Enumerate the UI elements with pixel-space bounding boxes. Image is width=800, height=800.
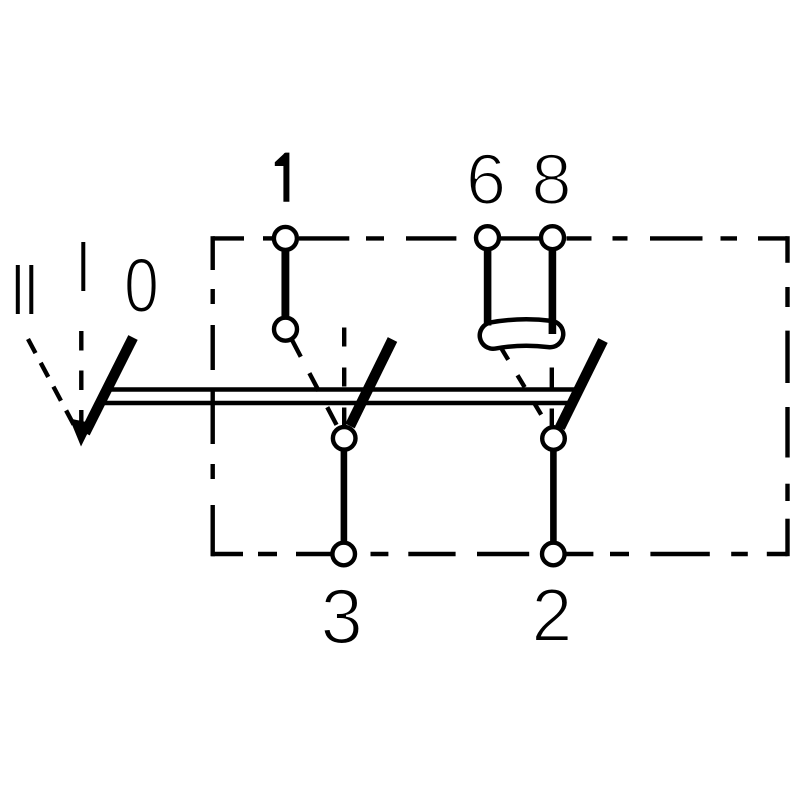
fixed contact circle of terminal 1 (274, 318, 297, 341)
switch body outline: top border (dash-dot) (213, 236, 788, 240)
position I dashed line, pole 1 (342, 328, 346, 431)
switch body outline: right border (dash-dot) (785, 236, 789, 556)
position II dashed line, pole 0 (28, 339, 80, 437)
arrowhead of actuator lever (70, 419, 93, 447)
switch body outline: left border (dash-dot) (210, 236, 214, 556)
terminal 2 circle (542, 543, 565, 566)
moving contact arm, pole 2 (560, 341, 603, 428)
terminal 8 circle (541, 226, 564, 249)
moving contact arm, pole 1 (350, 340, 393, 427)
wire terminal 8 to bridge link (549, 245, 557, 334)
position I dashed line, pole 2 (550, 368, 554, 430)
moving contact pivot circle, pole 2 (542, 427, 565, 450)
label 8 (terminal) (531, 141, 571, 220)
actuator link bar (double line) (102, 390, 578, 404)
terminal 6 circle (476, 226, 499, 249)
position II dashed line, pole 2 (501, 348, 551, 431)
position II dashed line, pole 1 (292, 339, 341, 432)
svg-text:8: 8 (531, 141, 571, 220)
label 0 (position) (124, 243, 159, 329)
wire terminal 6 to bridge link (484, 245, 492, 326)
wire moving contact to terminal 3 (341, 444, 348, 549)
label 3 (terminal) (321, 573, 363, 660)
wire moving contact to terminal 2 (550, 444, 557, 549)
bridge link between terminals 6 and 8 (illumination loop) (493, 333, 550, 336)
moving contact pivot circle, pole 1 (333, 427, 356, 450)
wire terminal 1 to fixed contact (281, 245, 289, 320)
position mark I (81, 242, 85, 291)
terminal 1 circle (274, 227, 297, 250)
label 2 (terminal) (532, 573, 573, 657)
position I dashed line, pole 0 (79, 331, 83, 433)
position mark II (18, 265, 32, 314)
switch body outline: bottom border (dash-dot) (211, 552, 787, 556)
actuator lever arm, pole 0 (position 0, with arrow) (85, 338, 133, 434)
svg-text:0: 0 (124, 243, 159, 329)
svg-text:6: 6 (466, 141, 506, 220)
label 6 (terminal) (466, 141, 506, 220)
svg-text:2: 2 (532, 573, 573, 657)
terminal 3 circle (332, 543, 355, 566)
label 1 (terminal) (275, 153, 290, 202)
svg-text:3: 3 (321, 573, 363, 660)
